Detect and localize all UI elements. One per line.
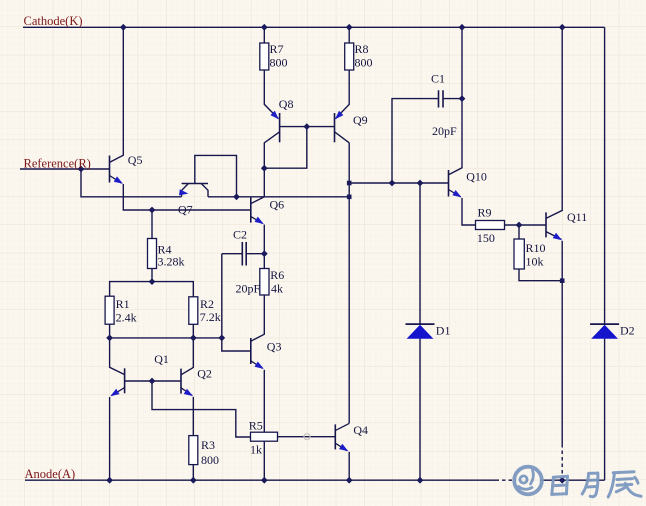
watermark char yue (moon) — [582, 473, 598, 497]
wire base node down to R5 — [152, 381, 251, 437]
node reference junction — [78, 166, 85, 173]
wire Q11 emitter down — [546, 232, 562, 281]
svg-text:R5: R5 — [249, 419, 263, 433]
node anode/Q1 — [106, 477, 113, 484]
resistor R1 — [105, 296, 114, 324]
transistor Q5 bar — [109, 156, 111, 183]
node anode/Q4 — [346, 477, 353, 484]
wire R1 R2 top bus — [110, 282, 194, 297]
arrow Q4 emitter — [339, 444, 348, 451]
svg-text:Q5: Q5 — [128, 153, 143, 167]
transistor Q10 bar — [448, 170, 450, 197]
wire R10 top lead — [518, 225, 520, 239]
wire Q7 emitter slant — [182, 184, 189, 197]
node cathode/C1 — [459, 24, 466, 31]
wire R4 top lead — [151, 210, 153, 239]
svg-text:Anode(A): Anode(A) — [25, 467, 76, 481]
resistor R9 — [476, 221, 505, 230]
node D1 top — [417, 180, 424, 187]
arrow Q2 emitter — [184, 389, 193, 396]
wire C2 left vertical to Q3 base — [222, 254, 251, 351]
node anode/D1 — [417, 477, 424, 484]
wire Q9/Q4 collector long vertical — [348, 143, 350, 424]
watermark char ri (sun) — [552, 476, 568, 494]
watermark logo disc — [512, 465, 543, 496]
transistor Q8 bar — [279, 113, 281, 142]
node cathode/R8 — [346, 24, 353, 31]
diode D1 — [406, 323, 435, 325]
node C2/R6/Q6 — [261, 250, 268, 257]
svg-text:20pF: 20pF — [432, 124, 457, 138]
svg-text:7.2k: 7.2k — [200, 310, 221, 324]
wire Q1 Q2 base line — [125, 380, 181, 382]
wire R5 to Q4 base — [278, 436, 336, 438]
resistor R6 — [260, 269, 269, 296]
wire Q1 collector from R1 node — [110, 338, 125, 375]
transistor Q5 emitter slant — [110, 176, 122, 184]
wire R7 bottom to Q8 emitter — [264, 70, 278, 119]
svg-text:R7: R7 — [270, 42, 284, 56]
watermark logo ring — [514, 467, 542, 495]
transistor Q2 bar — [180, 369, 182, 394]
arrow Q8 emitter — [270, 111, 279, 120]
svg-text:2.4k: 2.4k — [116, 311, 137, 325]
transistor Q4 bar — [334, 424, 336, 449]
wire R8 bottom to Q9 emitter — [336, 70, 350, 119]
wire Q4 emitter to anode — [348, 452, 350, 480]
wire R7 top lead — [263, 27, 265, 43]
wire cathode drop to C1/Q10 — [449, 27, 463, 175]
node C1 right — [459, 95, 466, 102]
wire R6 top lead — [263, 254, 265, 269]
wire Q5 emitter down and line to Q6 base — [123, 184, 251, 210]
svg-text:Q9: Q9 — [353, 113, 368, 127]
transistor Q7 bar — [182, 183, 208, 185]
resistor R8 — [345, 43, 354, 70]
wire line A from Q7 collector to Q9 line — [208, 196, 349, 198]
wire R3 bottom lead — [192, 465, 194, 481]
arrow Q9 emitter — [335, 111, 344, 120]
svg-text:10k: 10k — [526, 255, 544, 269]
wire R9 to Q11 base — [505, 224, 547, 226]
svg-text:C1: C1 — [431, 72, 445, 86]
resistor R7 — [260, 43, 269, 70]
svg-text:Q7: Q7 — [178, 203, 193, 217]
arrow Q10 emitter — [452, 190, 461, 197]
node Q8 collector loop — [261, 165, 268, 172]
watermark logo inner slash — [531, 470, 534, 484]
wire R2 bottom lead — [192, 324, 194, 338]
wire D1 vertical top — [419, 183, 421, 324]
transistor Q1 bar — [124, 368, 126, 393]
node R10 bottom / Q11 emitter (square) — [560, 278, 565, 283]
wire Q10 base line — [349, 182, 448, 184]
node R2 bottom — [190, 335, 197, 342]
node R4 top — [149, 207, 156, 214]
svg-text:R9: R9 — [478, 206, 492, 220]
node line A to Q9 line (square) — [347, 195, 352, 200]
wire Q8 collector down — [264, 132, 279, 168]
capacitor C1 plates — [439, 90, 444, 107]
wire Q3 emitter down to anode — [263, 370, 265, 480]
arrow Q6 emitter — [255, 217, 264, 224]
wire Q10 emitter to R9 — [462, 198, 476, 225]
svg-text:R3: R3 — [201, 438, 215, 452]
transistor Q9 bar — [334, 113, 336, 142]
svg-text:D2: D2 — [620, 324, 635, 338]
svg-text:150: 150 — [477, 231, 495, 245]
wire Q7 base stub and loop to collector node — [195, 155, 237, 196]
svg-text:800: 800 — [355, 56, 373, 70]
watermark dash fade on anode wire — [499, 479, 515, 481]
watermark char chen — [608, 472, 641, 497]
svg-text:Q1: Q1 — [154, 352, 169, 366]
node base line to Q9 line (square) — [347, 181, 352, 186]
wire reference drop to line A — [81, 169, 182, 197]
transistor Q2 emitter slant — [181, 388, 192, 396]
node R4 bottom — [149, 278, 156, 285]
node Q8 base — [303, 123, 310, 130]
resistor R4 — [148, 239, 157, 269]
node anode/Q3 — [261, 477, 268, 484]
diode D2 — [590, 323, 619, 325]
wire Q8 collector-base loop — [264, 127, 307, 169]
svg-text:Q8: Q8 — [279, 97, 294, 111]
svg-text:R10: R10 — [526, 241, 546, 255]
node R9/R10/Q11 — [516, 222, 523, 229]
watermark logo inner small circle — [520, 476, 527, 483]
transistor Q11 bar — [545, 212, 547, 237]
wire D2 vertical top from cathode — [604, 27, 606, 324]
arrow Q7 emitter — [179, 189, 188, 195]
transistor Q3 bar — [250, 338, 252, 364]
wire C1 left vertical — [392, 99, 439, 183]
no-connect marker on R5-Q4 wire — [304, 434, 310, 440]
wire Q11/R10 node down to anode dashed part — [561, 444, 563, 480]
transistor Q10 emitter slant — [449, 190, 461, 197]
node cathode/Q11 — [559, 24, 566, 31]
svg-text:R2: R2 — [200, 297, 214, 311]
wire cathode rail — [23, 26, 605, 28]
node C2 branch — [218, 335, 225, 342]
wire R4 bottom lead — [151, 269, 153, 282]
capacitor C2 plates — [242, 242, 246, 266]
svg-text:R8: R8 — [355, 42, 369, 56]
wire R1 bottom lead — [109, 324, 111, 338]
wire C2 right lead — [246, 253, 264, 255]
transistor Q6 emitter slant — [251, 216, 263, 223]
wire R6 bottom to Q3 collector — [251, 295, 264, 341]
transistor Q1 emitter slant — [112, 388, 125, 396]
wire Q11 collector to cathode — [546, 27, 562, 218]
svg-text:R1: R1 — [116, 297, 130, 311]
node anode/Q11 branch — [559, 477, 566, 484]
node cathode/R7 — [261, 24, 268, 31]
wire R10 bottom to Q11 emitter node — [519, 269, 562, 281]
wire D1 vertical bottom — [419, 339, 421, 481]
svg-text:Q2: Q2 — [197, 367, 212, 381]
wire Q2 collector to R2 bottom — [181, 338, 193, 375]
wire Q6 collector up to mirror node — [251, 168, 264, 203]
watermark logo inner hook — [519, 487, 533, 490]
svg-text:1k: 1k — [250, 443, 262, 457]
arrow Q5 emitter — [114, 176, 123, 183]
transistor Q3 emitter slant — [251, 361, 263, 369]
node cathode/Q5 — [120, 24, 127, 31]
svg-text:C2: C2 — [233, 228, 247, 242]
wire D2 vertical bottom — [604, 339, 606, 481]
arrow Q1 emitter — [110, 389, 119, 396]
wire anode rail — [25, 479, 605, 481]
transistor Q4 emitter slant — [335, 443, 347, 451]
svg-text:Q4: Q4 — [353, 423, 368, 437]
node Q7 collector/base — [233, 193, 240, 200]
svg-text:800: 800 — [201, 453, 219, 467]
transistor Q4 collector slant — [335, 423, 349, 430]
wire Q11/R10 node down to anode solid part — [561, 281, 563, 444]
wire Q1 emitter down to anode — [109, 397, 111, 480]
wire C1 right lead to cathode drop — [443, 98, 462, 100]
wire Q8 base line to Q9 — [280, 126, 335, 128]
wire R1-R2 bottom bus to C2 node — [110, 337, 222, 339]
wire Q9 collector slant — [335, 132, 350, 143]
node anode/R3 — [190, 477, 197, 484]
arrow Q3 emitter — [255, 362, 264, 369]
svg-text:Q11: Q11 — [567, 210, 587, 224]
resistor R3 — [189, 436, 198, 465]
svg-text:Q10: Q10 — [466, 170, 487, 184]
wire Q6 emitter to C2/R6 node — [263, 225, 265, 254]
wire C2 left lead — [222, 253, 243, 255]
wire reference lead — [20, 168, 81, 170]
wire R8 top lead — [348, 27, 350, 43]
svg-text:Cathode(K): Cathode(K) — [24, 14, 83, 28]
svg-text:D1: D1 — [436, 324, 451, 338]
arrow Q11 emitter — [553, 233, 562, 240]
resistor R10 — [514, 239, 524, 269]
node Q1 Q2 base — [149, 378, 156, 385]
svg-text:Reference(R): Reference(R) — [24, 157, 91, 171]
transistor Q6 bar — [250, 198, 252, 223]
svg-text:800: 800 — [270, 56, 288, 70]
wire Q5 collector to cathode — [110, 27, 124, 162]
svg-text:3.28k: 3.28k — [158, 255, 185, 269]
svg-text:4k: 4k — [271, 282, 283, 296]
wire Q5 base to reference — [81, 168, 110, 170]
svg-text:Q6: Q6 — [270, 198, 285, 212]
svg-text:20pF: 20pF — [236, 282, 261, 296]
svg-text:Q3: Q3 — [267, 340, 282, 354]
svg-text:R6: R6 — [270, 268, 284, 282]
resistor R2 — [189, 297, 198, 325]
node C1 left — [389, 180, 396, 187]
wire Q7 collector slant — [201, 184, 208, 197]
resistor R5 — [251, 432, 278, 441]
node R1 bottom — [106, 335, 113, 342]
wire Q2 emitter down to R3 — [192, 397, 194, 436]
